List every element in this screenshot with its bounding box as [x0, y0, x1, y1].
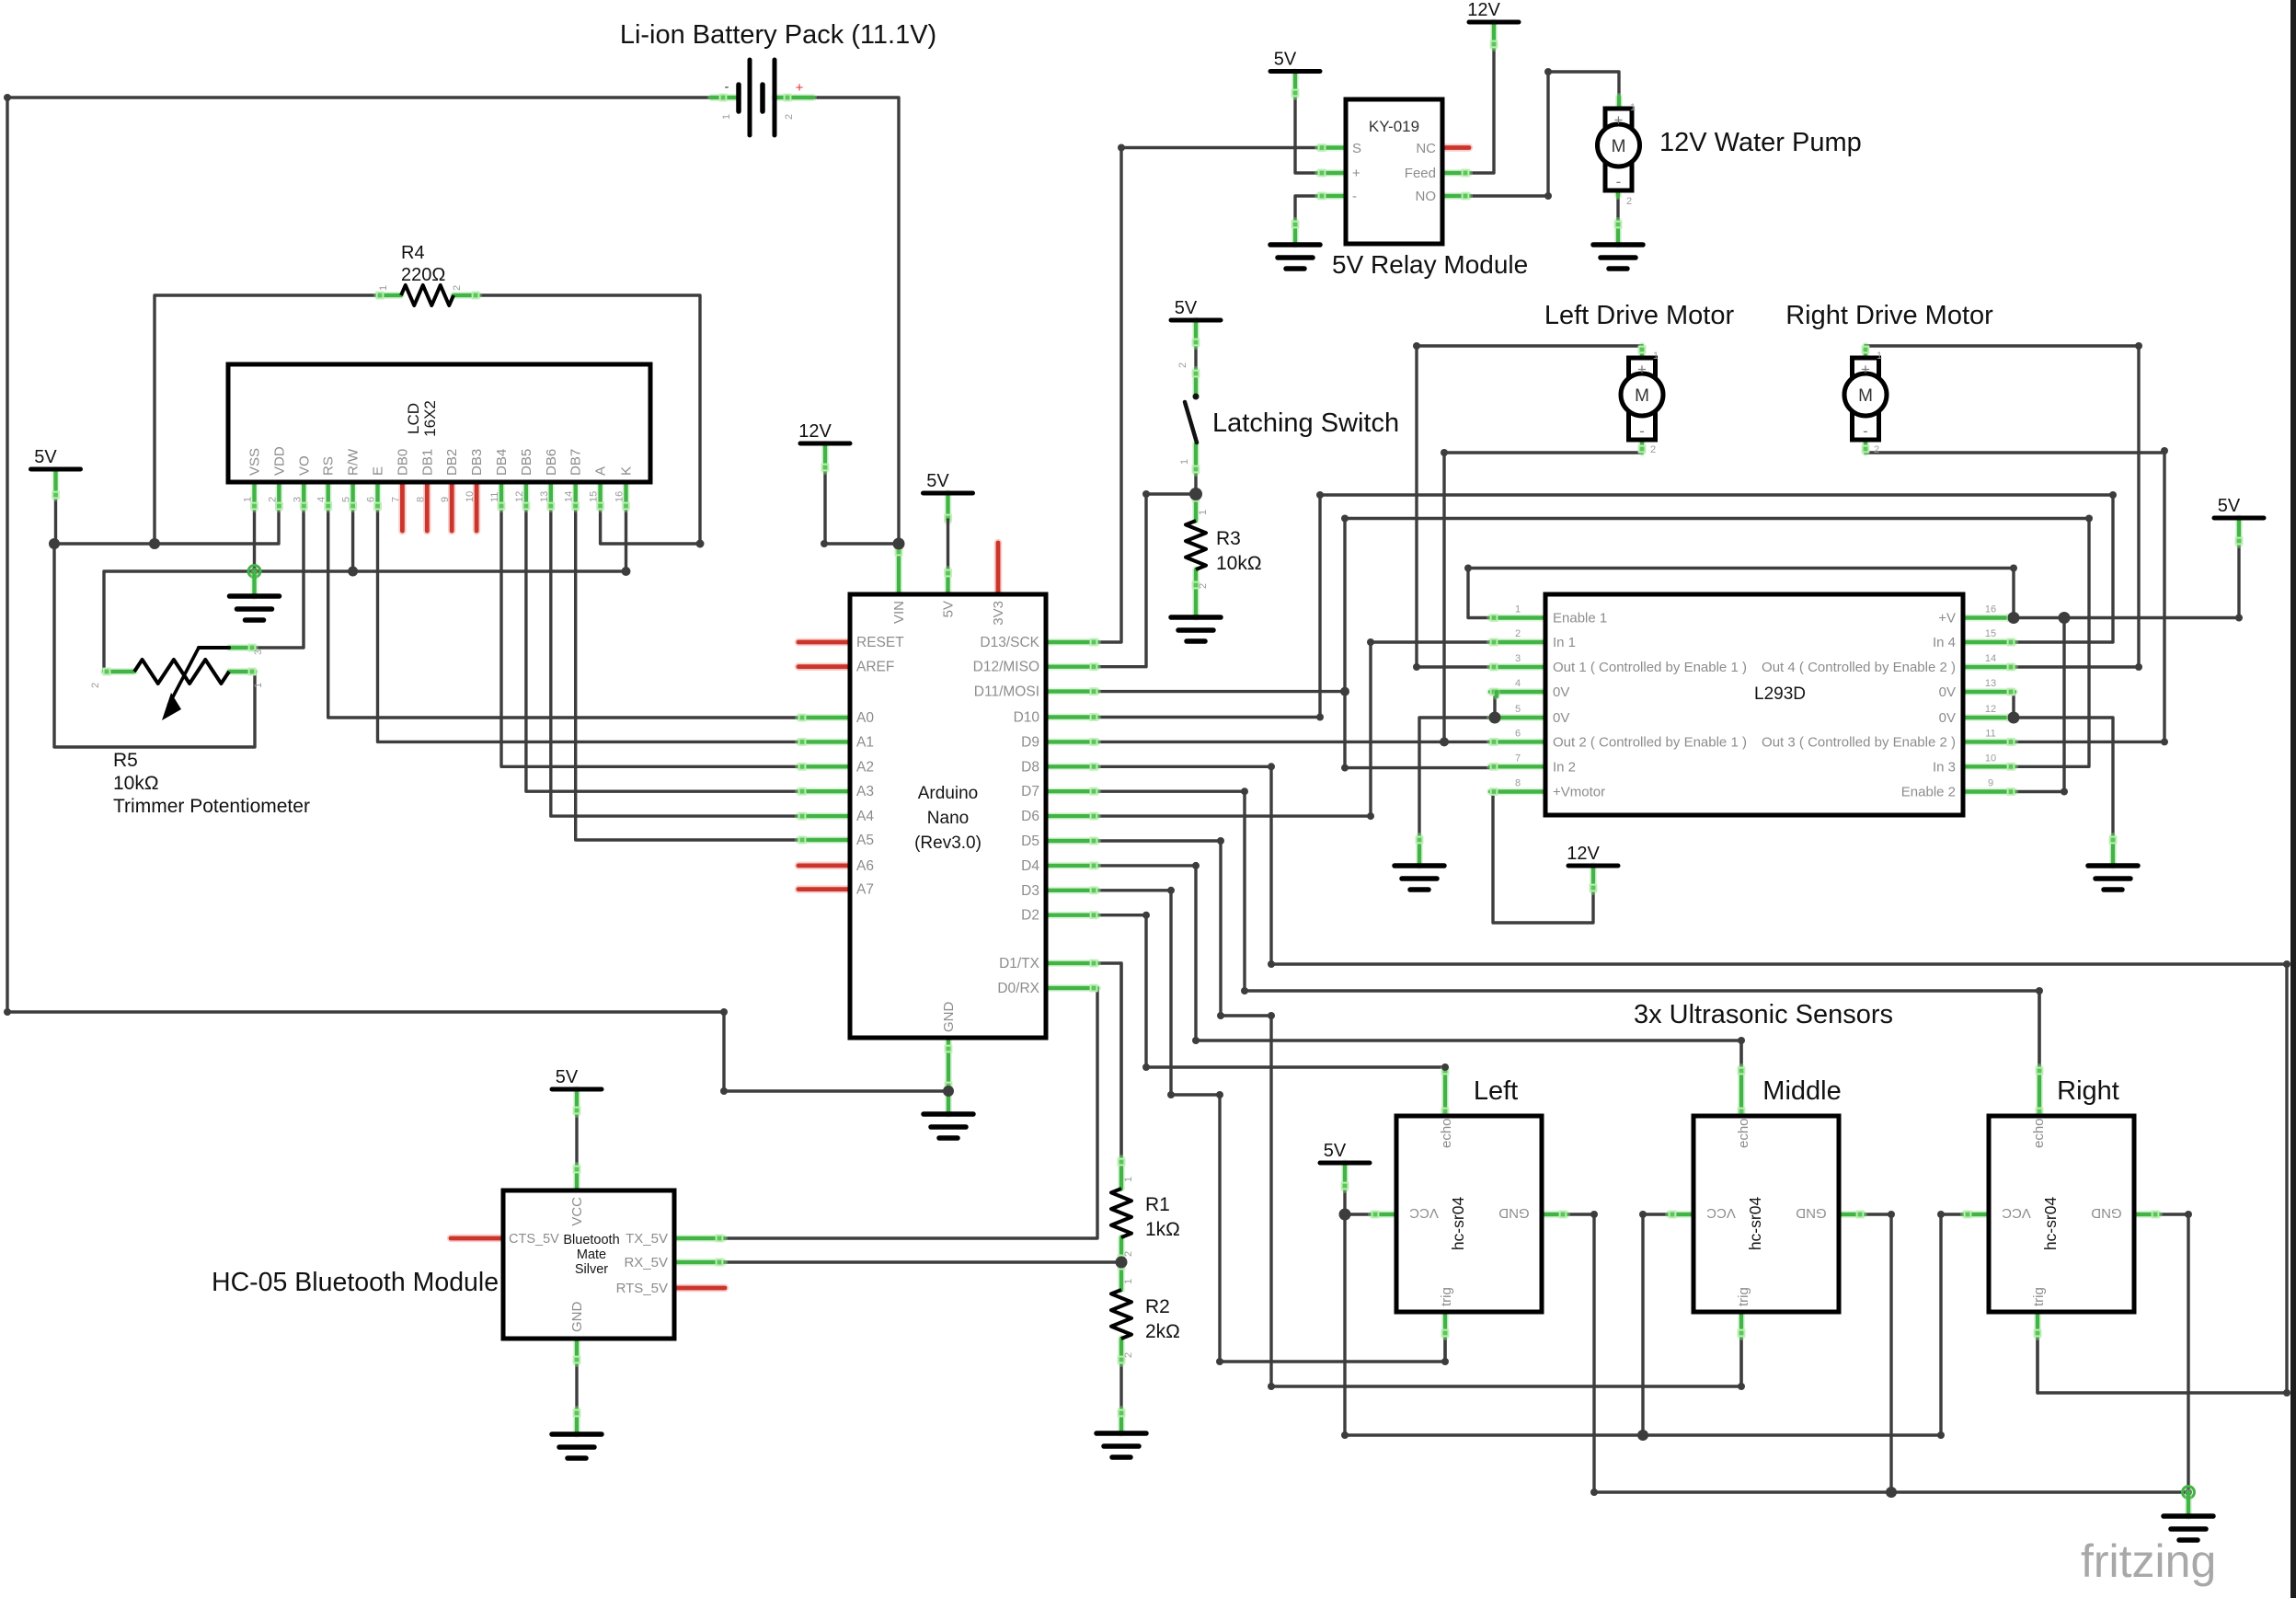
R3 pin2 highlight [1193, 569, 1200, 617]
L293D pin3 highlight [1490, 664, 1545, 671]
svg-text:R2: R2 [1145, 1296, 1170, 1317]
relay S highlight [1318, 144, 1346, 151]
svg-text:1: 1 [1630, 102, 1636, 113]
svg-text:7: 7 [390, 497, 401, 502]
right motor pin2 highlight [1863, 440, 1869, 453]
svg-text:R/W: R/W [346, 448, 362, 476]
D11 pin highlight [1046, 688, 1097, 695]
wire D1/TX to R1 [1097, 963, 1121, 1158]
wire D8 rail to right trig [1271, 964, 2287, 1393]
svg-text:1: 1 [721, 114, 732, 120]
wire Enable2 to +V rail [2015, 618, 2064, 792]
L293D pin10 highlight [1963, 764, 2015, 770]
svg-text:D5: D5 [1021, 833, 1039, 849]
svg-text:2: 2 [1198, 583, 1209, 589]
power 5V LCD [31, 447, 81, 469]
LCD pin11 highlight [499, 482, 505, 509]
svg-text:2: 2 [784, 114, 795, 120]
L293D pin6 highlight [1490, 739, 1545, 745]
svg-text:VDD: VDD [271, 446, 287, 476]
svg-text:14: 14 [1985, 653, 1996, 664]
svg-text:D7: D7 [1021, 784, 1039, 799]
svg-text:M: M [1612, 137, 1626, 156]
svg-text:1: 1 [1123, 1279, 1134, 1284]
R3 pin1 highlight [1193, 494, 1200, 521]
svg-text:A7: A7 [856, 882, 874, 898]
svg-text:Silver: Silver [575, 1262, 608, 1277]
svg-text:DB6: DB6 [544, 449, 559, 476]
right trig highlight [2035, 1312, 2041, 1337]
R4 pin2 highlight [453, 293, 478, 299]
ground stub L293D left [1417, 836, 1423, 866]
ground stub bluetooth [574, 1409, 580, 1434]
wire middle echo stub [1739, 1040, 1742, 1067]
svg-text:1: 1 [243, 497, 254, 502]
svg-text:In 3: In 3 [1933, 759, 1956, 775]
junction 5V rail [49, 538, 60, 549]
resistor R3 [1186, 521, 1206, 569]
svg-text:12V Water Pump: 12V Water Pump [1659, 128, 1862, 157]
bluetooth VCC highlight [574, 1166, 580, 1190]
battery pin1 highlight [711, 95, 736, 101]
wire R4 pin2 down [478, 295, 700, 544]
svg-text:2: 2 [1123, 1251, 1134, 1257]
svg-text:GND: GND [2091, 1205, 2122, 1221]
power 5V sensors [1320, 1141, 1370, 1163]
ultrasonic sensor left hc-sr04 box [1396, 1116, 1542, 1312]
L293D pin4 jog highlight [1493, 692, 1500, 696]
ultrasonic sensor middle hc-sr04 box [1693, 1116, 1839, 1312]
A2 pin highlight [798, 764, 850, 770]
relay module KY-019 box [1346, 99, 1442, 244]
svg-text:LCD: LCD [405, 403, 422, 434]
svg-text:Out 3 ( Controlled by Enable 2: Out 3 ( Controlled by Enable 2 ) [1762, 734, 1956, 750]
wire D6 to In1 [1097, 642, 1490, 816]
svg-text:5V: 5V [556, 1067, 579, 1087]
middle trig highlight [1739, 1312, 1745, 1337]
svg-text:RTS_5V: RTS_5V [616, 1281, 668, 1296]
svg-text:NO: NO [1416, 189, 1437, 204]
LCD pin6 highlight [374, 482, 381, 509]
svg-text:16: 16 [1985, 604, 1996, 615]
wire pump - to ground [1616, 196, 1619, 221]
R1 pin2 highlight [1119, 1237, 1125, 1262]
L293D pin2 highlight [1490, 639, 1545, 646]
motor M3 right drive [1844, 358, 1887, 440]
D12 pin highlight [1046, 663, 1097, 670]
svg-text:echo: echo [1439, 1118, 1454, 1148]
svg-text:Enable 2: Enable 2 [1901, 785, 1956, 800]
left VCC highlight [1372, 1212, 1396, 1218]
svg-text:CTS_5V: CTS_5V [509, 1232, 559, 1247]
wire 5V to bluetooth VCC [575, 1114, 578, 1166]
svg-text:A2: A2 [856, 759, 874, 775]
svg-text:Nano: Nano [927, 809, 969, 828]
svg-text:R5: R5 [113, 750, 138, 771]
svg-text:L293D: L293D [1754, 684, 1806, 704]
5V stub LCD [52, 470, 59, 498]
svg-text:-: - [1863, 422, 1868, 440]
svg-text:2: 2 [1626, 196, 1632, 207]
switch pin2 highlight [1193, 370, 1200, 395]
power 5V switch [1171, 298, 1221, 320]
svg-text:E: E [371, 466, 386, 476]
RX_5V highlight [674, 1259, 724, 1266]
svg-text:GND: GND [1498, 1205, 1530, 1221]
svg-text:5V: 5V [926, 471, 949, 491]
svg-text:4: 4 [1515, 678, 1521, 689]
svg-text:+: + [796, 80, 804, 96]
wire D2 down [1097, 915, 1146, 1067]
svg-text:(Rev3.0): (Rev3.0) [914, 833, 982, 853]
wire Out3 to right motor - [1865, 453, 2164, 742]
5V stub +V [2236, 518, 2243, 545]
svg-text:DB1: DB1 [419, 449, 435, 476]
wire GND rail left sensor [1567, 1214, 2188, 1492]
wire D7 down [1097, 791, 1245, 991]
svg-text:R3: R3 [1216, 528, 1241, 549]
svg-text:5V: 5V [1324, 1141, 1347, 1161]
power 5V relay [1270, 50, 1320, 72]
LCD1 16x2 box [228, 364, 650, 482]
svg-text:R4: R4 [401, 243, 425, 263]
junction switch R3 D12 [1189, 488, 1202, 500]
svg-text:2: 2 [452, 285, 463, 291]
right edge border line [2290, 0, 2296, 1598]
wire +V to 5V symbol [2015, 545, 2239, 618]
svg-text:2kΩ: 2kΩ [1145, 1321, 1180, 1342]
ground arduino [924, 1114, 973, 1138]
wire LCD DB4 to A2 [501, 482, 850, 766]
svg-text:2: 2 [1123, 1352, 1134, 1358]
5V stub sensors [1342, 1163, 1349, 1190]
ground LCD VSS [230, 596, 280, 620]
relay NO highlight [1442, 193, 1469, 200]
ultrasonic sensor right hc-sr04 box [1989, 1116, 2134, 1312]
wire 0V pin13 jog [2012, 692, 2015, 718]
svg-text:5V Relay Module: 5V Relay Module [1332, 250, 1528, 279]
ground stub pump [1615, 221, 1622, 245]
svg-text:Arduino: Arduino [918, 784, 979, 803]
wire LCD DB6 to A4 [551, 482, 850, 816]
D13 pin highlight [1046, 639, 1097, 646]
wire LCD K down [625, 482, 627, 571]
svg-text:DB5: DB5 [519, 449, 534, 476]
svg-text:Feed: Feed [1405, 166, 1436, 181]
wire middle GND down [1864, 1214, 1891, 1492]
pot pin2 highlight [104, 669, 134, 675]
svg-text:D8: D8 [1021, 759, 1039, 775]
svg-text:12: 12 [1985, 704, 1996, 715]
svg-text:S: S [1352, 141, 1361, 156]
L293D pin13 highlight [1963, 689, 2015, 696]
wire 5V to left VCC node [1345, 1190, 1372, 1214]
svg-text:R1: R1 [1145, 1194, 1170, 1215]
power 5V bluetooth [552, 1067, 602, 1089]
wire D2 rail to left echo [1146, 1065, 1445, 1068]
LCD pin3 highlight [301, 482, 307, 509]
ground R3 [1171, 617, 1221, 641]
svg-text:6: 6 [1515, 728, 1521, 739]
pot pin1 highlight [229, 669, 255, 675]
5V stub relay [1292, 72, 1299, 97]
LCD pin14 highlight [572, 482, 579, 509]
junction battery/12V/VIN [893, 538, 905, 550]
L293D pin12 highlight [1963, 715, 2015, 721]
junction D11 riser [1340, 687, 1349, 696]
wire 5V symbol to rail [54, 498, 57, 544]
right echo highlight [2037, 1067, 2043, 1116]
svg-text:16X2: 16X2 [421, 400, 439, 437]
svg-text:1: 1 [1877, 351, 1882, 362]
arduino 5V wire mid [947, 520, 949, 571]
D1 pin highlight [1046, 960, 1097, 967]
power 5V arduino [924, 471, 973, 493]
D10 pin highlight [1046, 714, 1097, 720]
svg-text:3: 3 [292, 497, 303, 502]
ground stub L293D right [2110, 836, 2117, 866]
wire Out4 to right motor + [1865, 346, 2139, 667]
wire D12 to switch node [1097, 494, 1196, 667]
power 12V relay [1467, 0, 1519, 22]
3V3 red stub [994, 543, 1003, 594]
wire 0V pin5 to ground [1419, 718, 1490, 836]
L293D pin14 highlight [1963, 664, 2015, 671]
svg-text:0V: 0V [1939, 684, 1956, 700]
svg-text:Latching Switch: Latching Switch [1212, 408, 1399, 438]
svg-text:A1: A1 [856, 734, 874, 750]
svg-text:8: 8 [415, 497, 426, 502]
relay + highlight [1318, 170, 1346, 177]
svg-text:trig: trig [1439, 1287, 1454, 1306]
svg-text:+: + [1861, 361, 1870, 378]
wire LCD E to A1 [378, 482, 851, 742]
junction VCC rail middle [1637, 1430, 1648, 1441]
bluetooth HC-05 box [503, 1190, 674, 1339]
svg-text:10kΩ: 10kΩ [113, 773, 159, 794]
wire +Vmotor to 12V [1493, 792, 1593, 924]
D5 pin highlight [1046, 838, 1097, 845]
svg-text:10: 10 [465, 491, 476, 502]
svg-text:Out 4 ( Controlled by Enable 2: Out 4 ( Controlled by Enable 2 ) [1762, 660, 1956, 675]
left trig highlight [1442, 1312, 1449, 1337]
LCD pin12 highlight [523, 482, 530, 509]
arduino 5V pin highlight [945, 569, 951, 594]
svg-text:1: 1 [253, 683, 264, 688]
svg-text:2: 2 [267, 497, 278, 502]
wire relay - to ground [1295, 196, 1318, 221]
wire LCD RS to A0 [328, 482, 850, 718]
svg-text:13: 13 [1985, 678, 1996, 689]
svg-text:VSS: VSS [247, 448, 263, 476]
svg-text:VCC: VCC [569, 1197, 585, 1226]
motor M2 left drive [1621, 358, 1663, 440]
junction R4 left [149, 538, 160, 549]
latching switch S1 [1193, 394, 1200, 400]
svg-text:9: 9 [1988, 778, 1993, 789]
svg-text:+V: +V [1938, 611, 1956, 627]
svg-text:A: A [593, 466, 609, 476]
svg-text:Trimmer Potentiometer: Trimmer Potentiometer [113, 796, 310, 817]
left GND highlight [1542, 1212, 1567, 1218]
svg-text:1: 1 [1198, 510, 1209, 515]
svg-text:echo: echo [2031, 1118, 2047, 1148]
svg-text:A6: A6 [856, 858, 874, 874]
wire LCD A to R4 pin2 [601, 482, 700, 544]
R5 wiper arrow [168, 648, 199, 706]
svg-text:+: + [1614, 111, 1624, 129]
svg-text:Left: Left [1474, 1076, 1518, 1106]
wire relay + to 5V [1295, 97, 1318, 173]
wire D4 rail to middle echo [1196, 1040, 1741, 1067]
svg-text:2: 2 [1874, 444, 1879, 455]
ground bottom right [2164, 1516, 2213, 1540]
svg-text:12V: 12V [1567, 844, 1600, 864]
wire middle VCC down [1643, 1214, 1669, 1435]
A7 red stub [798, 885, 850, 893]
svg-text:VCC: VCC [1409, 1205, 1439, 1221]
svg-text:DB0: DB0 [395, 449, 410, 476]
ground stub arduino [945, 1091, 952, 1114]
svg-text:5V: 5V [1274, 50, 1297, 70]
R2 pin2 highlight [1119, 1339, 1125, 1363]
wire Out2 to left motor - [1444, 453, 1642, 742]
L293D pin16 highlight [1963, 615, 2015, 621]
svg-text:1: 1 [1515, 604, 1521, 615]
svg-text:VCC: VCC [1706, 1205, 1736, 1221]
svg-text:12V: 12V [798, 421, 832, 442]
svg-text:2: 2 [1650, 444, 1656, 455]
wire D7 rail to right echo [1245, 991, 2039, 1067]
left motor pin1 highlight [1639, 346, 1646, 358]
svg-text:RESET: RESET [856, 635, 904, 650]
LCD pin15 highlight [597, 482, 603, 509]
wire D3 down [1097, 891, 1220, 1362]
wire right GND down [2159, 1214, 2188, 1492]
D0 pin highlight [1046, 985, 1097, 992]
right GND highlight [2134, 1212, 2159, 1218]
svg-text:1kΩ: 1kΩ [1145, 1219, 1180, 1240]
junction R1 R2 RX [1116, 1257, 1128, 1269]
D9 pin highlight [1046, 739, 1097, 745]
wire D0/RX to bluetooth TX [724, 988, 1097, 1238]
power 12V arduino [798, 421, 850, 443]
svg-text:VO: VO [296, 455, 312, 476]
svg-text:Mate: Mate [577, 1247, 606, 1262]
svg-text:DB2: DB2 [444, 449, 460, 476]
svg-text:A5: A5 [856, 833, 874, 848]
wire R4 pin1 to 5V rail [155, 295, 377, 544]
ground stub relay [1292, 221, 1299, 245]
power 5V L293D [2214, 496, 2264, 518]
bluetooth GND highlight [574, 1339, 580, 1363]
ground L293D right [2088, 866, 2138, 890]
svg-text:10: 10 [1985, 753, 1996, 764]
wire Enable1 to +V rail [1468, 569, 2014, 618]
wire 0V pin4 jog [1493, 692, 1496, 718]
LCD pin16 highlight [623, 482, 629, 509]
L293D pin8 highlight [1490, 788, 1545, 795]
ground stub LCD [251, 571, 258, 596]
wire right echo stub [2038, 991, 2040, 1067]
wire battery negative to left rail [7, 96, 731, 98]
svg-text:Right: Right [2057, 1076, 2119, 1106]
svg-text:GND: GND [569, 1302, 585, 1333]
ground stub bottom right [2185, 1492, 2192, 1516]
svg-text:15: 15 [1985, 628, 1996, 639]
svg-text:-: - [1616, 173, 1622, 190]
wire LCD R/W down [351, 482, 354, 571]
L293D U2 box [1545, 594, 1963, 815]
pot pin3 highlight [229, 645, 255, 651]
svg-text:0V: 0V [1553, 710, 1569, 726]
svg-text:In 1: In 1 [1553, 635, 1576, 650]
D7 pin highlight [1046, 788, 1097, 795]
ground R2 [1096, 1433, 1146, 1457]
svg-text:5V: 5V [2218, 496, 2241, 516]
5V stub bluetooth [574, 1089, 580, 1114]
wire D11 riser to In2 [1345, 519, 1490, 768]
VIN pin highlight [896, 544, 902, 594]
ground pump [1593, 245, 1643, 269]
svg-text:In 2: In 2 [1553, 759, 1576, 775]
wire 5V rail to pot pin1 [54, 544, 255, 747]
wire 0V pin12 to ground [2015, 718, 2113, 836]
svg-text:Right Drive Motor: Right Drive Motor [1785, 301, 1993, 330]
right motor pin1 highlight [1863, 346, 1869, 358]
pump pin1 highlight [1615, 97, 1623, 108]
svg-text:DB4: DB4 [494, 449, 510, 476]
svg-text:16: 16 [614, 491, 626, 502]
svg-text:Left Drive Motor: Left Drive Motor [1544, 301, 1735, 330]
wire ground rail pot pin2 VSS R/W K [104, 571, 626, 672]
wire D9 right [1097, 741, 1444, 743]
svg-text:-: - [725, 79, 729, 95]
svg-text:D6: D6 [1021, 809, 1039, 824]
svg-text:1: 1 [1653, 351, 1659, 362]
ground bluetooth [552, 1434, 602, 1458]
LCD pin4 highlight [325, 482, 331, 509]
RTS_5V red stub [674, 1284, 725, 1293]
L293D pin15 highlight [1963, 639, 2015, 646]
svg-text:hc-sr04: hc-sr04 [2041, 1197, 2060, 1251]
wire D5 rail to middle trig [1271, 1337, 1741, 1386]
AREF red stub [798, 662, 850, 671]
A5 pin highlight [798, 837, 850, 844]
svg-text:trig: trig [1736, 1287, 1751, 1306]
svg-text:Middle: Middle [1762, 1076, 1841, 1106]
A4 pin highlight [798, 813, 850, 820]
resistor R1 [1111, 1189, 1131, 1237]
svg-text:D4: D4 [1021, 858, 1039, 874]
wire left rail battery- to arduino GND [7, 98, 946, 1091]
wire D1 to R1 pin1 [1119, 963, 1122, 1158]
svg-text:D2: D2 [1021, 908, 1039, 924]
svg-text:0V: 0V [1939, 710, 1956, 726]
svg-text:220Ω: 220Ω [401, 265, 445, 285]
wire D13 to relay S [1097, 148, 1318, 643]
svg-text:D10: D10 [1014, 710, 1040, 726]
battery BT1 Li-ion pack [739, 60, 775, 135]
wire In3 rail [1345, 519, 2089, 767]
svg-text:hc-sr04: hc-sr04 [1746, 1197, 1764, 1251]
svg-text:10kΩ: 10kΩ [1216, 553, 1262, 574]
junction GND rail middle [1886, 1487, 1897, 1498]
wire VCC rail to right sensor [1345, 1214, 1964, 1435]
junction right ground green ring [2183, 1487, 2195, 1499]
svg-text:+: + [1637, 361, 1647, 378]
wire 5V rail to LCD VDD [54, 482, 279, 544]
